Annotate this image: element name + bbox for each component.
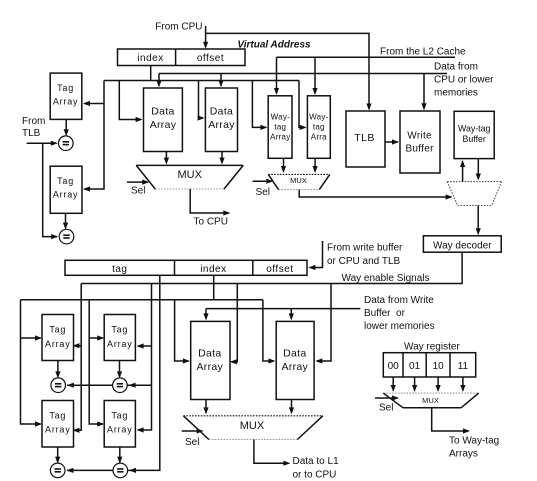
box: Tag Array (top row 1) (50, 73, 82, 119)
box: TLB (346, 111, 385, 167)
box: bottom Data Array 1 (191, 321, 230, 399)
arrowheads: compare line into comparators row 1 (67, 383, 74, 388)
svg-text:10: 10 (433, 361, 445, 372)
svg-text:TLB: TLB (22, 128, 41, 139)
svg-text:offset: offset (197, 53, 224, 64)
box: bottom Tag Array col1 row1 (42, 315, 74, 361)
svg-text:From write buffer: From write buffer (327, 243, 403, 254)
comparator circle row1 col2 (=) (113, 378, 128, 393)
svg-text:Buffer: Buffer (405, 143, 434, 154)
svg-text:Way enable Signals: Way enable Signals (342, 273, 430, 284)
wire: MUX 1 output To CPU (190, 189, 229, 213)
wire: transfer mux up into Way-tag Buffer (462, 162, 464, 182)
wire: Way-tag Buffer down into transfer mux (477, 159, 479, 179)
box: Way decoder (423, 236, 501, 252)
svg-text:Arrays: Arrays (449, 448, 478, 459)
wire: bottom tag array outputs into comparators row 1 (57, 361, 59, 377)
svg-text:Way-: Way- (309, 113, 328, 122)
wire: way enable drop to bottom tag arrays column 1 right side (74, 284, 81, 431)
wire: Sel into MUX 1 (127, 181, 148, 183)
wire: Tag Array 2 output into comparator 2 (65, 213, 67, 227)
wire: Tag Array 1 output into comparator 1 (65, 119, 67, 134)
wire: bottom index line drop to tag arrays column 2 left side (89, 300, 103, 424)
box: Data Array 1 (top) (144, 88, 183, 152)
wire: bottom tag array outputs into comparators row 2 (57, 447, 59, 462)
box: bottom Tag Array col2 row2 (104, 401, 135, 448)
wire: tag compare line to comparator row 1 (passes under circle) (67, 384, 152, 386)
wire: tag field output down to comparator row 2 (passes under circle) (67, 275, 160, 470)
svg-text:Data to L1: Data to L1 (293, 456, 340, 467)
wire: MUX 2 output to way-tag buffer mux (299, 190, 451, 197)
wire: data line drop into bottom Data Array 2 top (290, 309, 292, 319)
box: Tag Array (top row 2) (50, 166, 82, 213)
wire: Way-tag Array 2 output into way MUX (314, 158, 316, 171)
svg-text:Write: Write (407, 131, 432, 142)
svg-text:MUX: MUX (240, 420, 265, 432)
svg-text:Data from: Data from (434, 61, 478, 72)
svg-text:CPU or lower: CPU or lower (434, 74, 494, 85)
svg-text:Array: Array (53, 190, 79, 200)
box: Data Array 2 (top) (205, 88, 237, 152)
svg-text:Data: Data (151, 106, 174, 118)
wire: data line drop into bottom Data Array 1 top (205, 309, 207, 319)
svg-text:tag: tag (313, 122, 325, 131)
mux: way-tag buffer transfer mux (dashed trapezoid) (447, 182, 502, 206)
svg-text:Sel: Sel (256, 187, 270, 198)
wire: bottom index line (21, 299, 263, 301)
comparator circle 2 (=) (59, 229, 74, 244)
svg-text:lower memories: lower memories (364, 321, 435, 332)
svg-text:Virtual Address: Virtual Address (237, 39, 311, 50)
svg-text:From CPU: From CPU (155, 22, 202, 33)
svg-text:offset: offset (266, 264, 293, 275)
mux: MUX 1 (to CPU) (136, 165, 243, 189)
wire: data-from-CPU bus (horizontal) (159, 73, 447, 75)
svg-text:Sel: Sel (185, 437, 199, 448)
svg-text:Array: Array (107, 425, 133, 435)
wire: L2 line drop into Way-tag Array 1 top (276, 57, 278, 93)
svg-text:index: index (137, 53, 163, 64)
wire: L2 line drop into Way-tag Array 2 top (314, 57, 316, 93)
svg-text:Tag: Tag (49, 325, 66, 335)
svg-text:memories: memories (434, 88, 478, 99)
svg-text:or CPU and TLB: or CPU and TLB (327, 256, 401, 267)
svg-text:Array: Array (270, 132, 290, 141)
mux: MUX 4 (way register select) (383, 393, 478, 408)
svg-text:11: 11 (458, 361, 469, 372)
wire: Sel into MUX 4 (375, 397, 397, 399)
wire: way enable drop to bottom tag arrays column 2 right side, and to comparators row 1 (138, 284, 151, 431)
svg-text:Array: Array (282, 361, 309, 373)
svg-text:Data: Data (210, 106, 233, 118)
wire: from-L2-cache line (277, 56, 456, 58)
svg-text:Tag: Tag (111, 325, 128, 335)
svg-text:Tag: Tag (49, 410, 66, 420)
svg-text:Tag: Tag (57, 176, 74, 186)
svg-text:or to CPU: or to CPU (293, 470, 337, 481)
svg-text:Buffer or: Buffer or (364, 308, 406, 319)
wire: data bus drop into Data Array 1 top (158, 74, 160, 86)
svg-text:From: From (22, 116, 45, 127)
mux: MUX 3 (data to L1) (183, 416, 323, 440)
wire: TLB to Write Buffer (385, 141, 398, 143)
svg-text:Way-tag: Way-tag (458, 123, 491, 133)
wire: way enable drop into bottom Data Array 2 right (317, 284, 331, 362)
svg-text:Array: Array (45, 339, 71, 349)
box: Way-tag Buffer (454, 111, 494, 158)
svg-text:Way-: Way- (271, 113, 290, 122)
comparator circle row2 col1 (=) (50, 463, 65, 478)
wire: index bus drop to Way-tag Array 2 left (299, 81, 305, 128)
svg-text:Array: Array (53, 97, 79, 107)
wire: Way decoder output / way enable line (81, 252, 462, 283)
svg-text:Tag: Tag (111, 410, 128, 420)
svg-text:01: 01 (409, 361, 421, 372)
wire: Sel into MUX 3 (182, 430, 202, 432)
box: Write Buffer (400, 111, 440, 173)
wire: virtual address line from CPU over to TLB (206, 33, 369, 108)
wire: data bus drop into Write Buffer top (423, 74, 425, 109)
wire: index bus drop to Data Array 1 left (119, 81, 141, 120)
wire: index bus drop to Data Array 2 left (199, 81, 204, 119)
wire: Sel into MUX 2 (253, 180, 272, 182)
svg-text:Data: Data (198, 348, 221, 360)
box: bottom Tag Array col2 row1 (104, 315, 135, 361)
svg-text:Way register: Way register (404, 342, 460, 353)
wire: bottom Data Array outputs into MUX (205, 400, 207, 413)
svg-text:MUX: MUX (177, 169, 202, 181)
svg-text:From the L2 Cache: From the L2 Cache (380, 47, 466, 58)
svg-text:Array: Array (208, 119, 235, 131)
svg-text:Array: Array (197, 361, 224, 373)
wire: Data Array 2 output into MUX (221, 152, 223, 163)
wire: from write buffer into offset field (310, 241, 323, 268)
svg-text:Sel: Sel (131, 185, 145, 196)
svg-text:Arra: Arra (311, 132, 327, 141)
box: index/offset register (top) (118, 49, 246, 66)
box: bottom Data Array 2 (276, 321, 314, 399)
svg-text:MUX: MUX (422, 396, 439, 405)
svg-text:To CPU: To CPU (194, 217, 228, 228)
wire: index bus (horizontal) (104, 80, 299, 82)
wire: index field down to index bus (150, 66, 152, 81)
svg-text:TLB: TLB (354, 132, 374, 144)
box: Way-tag Array 2 (307, 96, 330, 159)
svg-text:Array: Array (45, 425, 71, 435)
svg-text:Data: Data (283, 348, 306, 360)
svg-text:Sel: Sel (379, 403, 393, 414)
svg-text:tag: tag (274, 122, 286, 131)
arrowheads: compare line into comparators row 2 (66, 468, 73, 473)
wire: From CPU down into index/offset box (205, 26, 207, 47)
box: tag/index/offset register (bottom) (65, 260, 307, 275)
box: bottom Tag Array col1 row2 (42, 401, 74, 448)
mux: MUX 2 (way-tag select) (268, 174, 330, 189)
comparator circle 1 (=) (59, 136, 74, 151)
wire: From TLB into comparator 1 and branch down to comparator 2 (27, 142, 57, 144)
wire: bottom index line drop into bottom Data Array 1 left (175, 300, 189, 361)
svg-text:Array: Array (150, 119, 177, 131)
box: Way-tag Array 1 (268, 96, 292, 159)
wire: MUX 4 output To Way-tag Arrays (432, 408, 469, 431)
svg-text:index: index (200, 264, 226, 275)
wire: way enable drop into bottom Data Array 1 right (231, 284, 237, 362)
wire: bottom data line from write buffer (206, 308, 360, 310)
wire: index field down to bottom index line (213, 275, 215, 299)
svg-text:MUX: MUX (290, 176, 307, 185)
svg-text:Data from Write: Data from Write (364, 295, 434, 306)
svg-text:tag: tag (112, 264, 127, 275)
wire: bottom index line drop into bottom Data Array 2 left (263, 300, 274, 361)
svg-text:Way decoder: Way decoder (433, 241, 492, 252)
wire: index bus drop to Way-tag Array 1 left (252, 81, 266, 128)
svg-text:Tag: Tag (57, 83, 74, 93)
comparator circle row2 col2 (=) (113, 463, 128, 478)
wire: Way-tag Array 1 output into way MUX (283, 158, 285, 171)
wire: transfer mux output into Way decoder (477, 206, 479, 234)
comparator circle row1 col1 (=) (51, 378, 66, 393)
wire: Data Array 1 output into MUX (165, 152, 167, 163)
wire: index bus drop to Tag Array 1 and Tag Array 2 (84, 81, 104, 190)
wire: data bus drop into Data Array 2 top (220, 74, 222, 86)
wire: MUX 3 output Data to L1 (254, 440, 289, 464)
svg-text:00: 00 (388, 361, 400, 372)
svg-text:To Way-tag: To Way-tag (449, 435, 499, 446)
wire: way register outputs into MUX 4 (392, 377, 394, 390)
box: Way register (00 01 10 11) (383, 353, 475, 377)
wire: bottom index line drop to tag arrays column 1 left side (21, 300, 41, 424)
svg-text:Buffer: Buffer (463, 134, 486, 144)
svg-text:Array: Array (107, 339, 133, 349)
